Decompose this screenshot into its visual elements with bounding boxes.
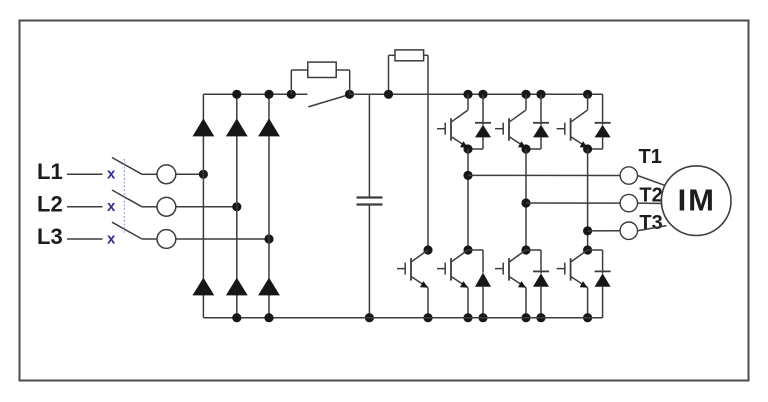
node bus/column2: [232, 90, 241, 99]
wire rectifier column 1: [202, 94, 204, 317]
IGBT Q3 (upper) emitter with arrow: [571, 137, 587, 148]
diode D4 (lower rectifier): [193, 278, 215, 296]
node IGBT Q6 collector: [583, 245, 592, 254]
wire T1 to motor: [638, 176, 666, 186]
wire blade to contactor L2: [142, 206, 157, 208]
wire phase output T3: [588, 230, 621, 232]
svg-text:T3: T3: [639, 212, 662, 234]
IGBT Q1 (upper) collector: [452, 110, 468, 122]
svg-text:T1: T1: [639, 146, 662, 168]
diode D6 (lower rectifier): [258, 278, 280, 296]
node DC+/IGBT Q2 collector: [521, 90, 530, 99]
svg-text:x: x: [107, 230, 116, 247]
IGBT Q2 (upper) collector: [510, 110, 526, 122]
diode D12 (lower freewheel) lead: [602, 250, 604, 273]
IGBT Q4 (lower) emitter with arrow: [452, 277, 468, 288]
node precharge left: [287, 90, 296, 99]
node DC+/diode D7: [478, 90, 487, 99]
wire capacitor bottom lead: [368, 205, 370, 318]
wire blade to contactor L3: [142, 238, 157, 240]
node precharge right: [345, 90, 354, 99]
diode D7 (upper freewheel) cathode bar: [475, 122, 491, 124]
IGBT Q1 (upper) gate lead: [437, 128, 445, 130]
node Q7 emitter/DC-: [423, 313, 432, 322]
IGBT Q7 (brake chopper) collector: [412, 250, 428, 262]
IGBT Q5 (lower) body bar: [508, 258, 510, 281]
wire capacitor top lead: [368, 94, 370, 197]
switch precharge bypass contact: [308, 95, 349, 107]
diode D9 (upper freewheel) cathode bar: [595, 122, 611, 124]
IGBT Q7 (brake chopper) gate bar: [404, 263, 406, 275]
IGBT Q5 (lower) collector: [510, 250, 526, 262]
wire rectifier column 3: [268, 94, 270, 317]
IGBT Q6 (lower) gate bar: [564, 263, 566, 275]
node Q5 emitter/DC-: [521, 313, 530, 322]
wire L3 to rectifier: [176, 238, 269, 240]
wire blade to contactor L1: [142, 173, 157, 175]
wire DC+ bus (left of precharge switch): [203, 93, 307, 95]
IGBT Q6 (lower) gate lead: [557, 268, 565, 270]
wire brake resistor left lead: [388, 55, 390, 94]
diode D11 (lower freewheel) lead: [540, 250, 542, 273]
wire L1 to rectifier: [176, 173, 204, 175]
IGBT Q6 (lower) emitter with arrow: [571, 277, 587, 288]
terminal circle T2: [620, 194, 637, 211]
svg-text:x: x: [107, 198, 116, 215]
IGBT Q2 (upper) gate lead: [495, 128, 503, 130]
wire Q1 emitter to D7 anode: [468, 148, 483, 150]
svg-text:IM: IM: [678, 182, 716, 217]
wire precharge loop left: [290, 70, 292, 94]
node DC-/column2: [232, 313, 241, 322]
node bus/brake-resistor: [384, 90, 393, 99]
switch gang link (dashed): [123, 159, 125, 233]
wire brake resistor right lead: [424, 54, 428, 56]
IGBT Q6 (lower) body bar: [570, 258, 572, 281]
switch blade S1: [112, 158, 142, 175]
wire rectifier column 2: [236, 94, 238, 317]
wire L2 to rectifier: [176, 206, 237, 208]
IGBT Q7 (brake chopper) emitter with arrow: [412, 277, 428, 288]
diode D5 (lower rectifier): [226, 278, 248, 296]
IGBT Q7 (brake chopper) body bar: [410, 258, 412, 281]
wire L3 lead-in: [67, 238, 103, 240]
IGBT Q3 (upper) gate bar: [564, 123, 566, 135]
wire Q4 collector to D10 cathode: [468, 249, 483, 251]
diode D8 (upper freewheel) lead: [540, 94, 542, 125]
wire T2 to motor: [638, 202, 664, 204]
wire L1 lead-in: [67, 173, 103, 175]
wire phase leg 2 midpoint: [525, 149, 527, 250]
wire Q6 collector to D12 cathode: [588, 249, 603, 251]
wire phase leg 3 midpoint: [587, 149, 589, 250]
node brake IGBT Q7 collector: [423, 245, 432, 254]
diode D7 (upper freewheel) triangle: [475, 125, 491, 138]
resistor R2 (brake): [395, 50, 424, 61]
svg-text:L3: L3: [37, 224, 63, 249]
terminal circle T3: [620, 222, 637, 239]
node DC+/IGBT Q1 collector: [463, 90, 472, 99]
node L2-rectifier junction: [232, 202, 241, 211]
node D11/DC-: [536, 313, 545, 322]
node D10/DC-: [478, 313, 487, 322]
wire DC- bus: [203, 317, 602, 319]
node phase T1 tap: [463, 171, 472, 180]
node Q3 emitter junction: [583, 144, 592, 153]
diode D3 (upper rectifier): [258, 118, 280, 136]
wire precharge loop right: [336, 69, 350, 71]
svg-text:L2: L2: [37, 192, 63, 217]
IGBT Q5 (lower) emitter with arrow: [510, 277, 526, 288]
node Q4 emitter/DC-: [463, 313, 472, 322]
diode D7 (upper freewheel) lead: [482, 94, 484, 125]
node capacitor/DC- bus: [365, 313, 374, 322]
diode D10 (lower freewheel) lead: [482, 250, 484, 273]
diode D9 (upper freewheel) lead: [602, 94, 604, 125]
IGBT Q7 (brake chopper) gate lead: [397, 268, 405, 270]
node DC+/diode D8: [536, 90, 545, 99]
IGBT Q4 (lower) body bar: [450, 258, 452, 281]
IGBT Q5 (lower) gate bar: [502, 263, 504, 275]
IGBT Q3 (upper) gate lead: [557, 128, 565, 130]
node DC-/column3: [264, 313, 273, 322]
switch blade S2: [112, 190, 142, 207]
diode D12 (lower freewheel) triangle: [595, 273, 611, 286]
terminal circle T1: [620, 167, 637, 184]
IGBT Q4 (lower) gate lead: [437, 268, 445, 270]
node IGBT Q5 collector: [521, 245, 530, 254]
IGBT Q3 (upper) body bar: [570, 118, 572, 141]
wire L2 lead-in: [67, 206, 103, 208]
node Q1 emitter junction: [463, 144, 472, 153]
IGBT Q4 (lower) gate bar: [444, 263, 446, 275]
switch blade S3: [112, 222, 142, 239]
node phase T2 tap: [521, 198, 530, 207]
diode D9 (upper freewheel) triangle: [595, 125, 611, 138]
IGBT Q6 (lower) collector: [571, 250, 587, 262]
IGBT Q2 (upper) body bar: [508, 118, 510, 141]
contactor circle K1: [157, 165, 176, 184]
wire Q5 collector to D11 cathode: [526, 249, 541, 251]
diode D8 (upper freewheel) triangle: [533, 125, 549, 138]
diode D8 (upper freewheel) cathode bar: [533, 122, 549, 124]
IGBT Q2 (upper) gate bar: [502, 123, 504, 135]
diode D10 (lower freewheel) triangle: [475, 273, 491, 287]
IGBT Q1 (upper) gate bar: [444, 123, 446, 135]
diode D1 (upper rectifier): [193, 118, 215, 136]
diode D11 (lower freewheel) cathode bar: [533, 270, 549, 272]
capacitor C1 (DC link): [357, 196, 383, 198]
wire Q2 emitter to D8 anode: [526, 148, 541, 150]
diode D12 (lower freewheel) cathode bar: [595, 270, 611, 272]
resistor R1 (precharge): [308, 62, 336, 77]
contactor circle K2: [157, 197, 176, 216]
IGBT Q5 (lower) gate lead: [495, 268, 503, 270]
IGBT Q3 (upper) collector: [571, 110, 587, 122]
wire T3 to motor: [638, 226, 667, 231]
wire DC+ bus (right section): [350, 93, 603, 95]
svg-text:L1: L1: [37, 159, 63, 184]
node Q6 emitter/DC-: [583, 313, 592, 322]
node phase T3 tap: [583, 226, 592, 235]
node DC+/IGBT Q3 collector: [583, 90, 592, 99]
diode D2 (upper rectifier): [226, 118, 248, 136]
contactor circle K3: [157, 230, 176, 249]
svg-text:x: x: [107, 166, 116, 183]
node L3-rectifier junction: [264, 234, 273, 243]
wire phase output T1: [468, 174, 620, 176]
wire phase output T2: [526, 202, 620, 204]
IGBT Q1 (upper) emitter with arrow: [452, 137, 468, 148]
motor M1 circle: [661, 166, 731, 236]
IGBT Q4 (lower) collector: [452, 250, 468, 262]
diode D11 (lower freewheel) triangle: [533, 273, 549, 286]
wire Q3 emitter to D9 anode: [588, 148, 603, 150]
node Q2 emitter junction: [521, 144, 530, 153]
wire phase leg 1 midpoint: [467, 149, 469, 250]
IGBT Q2 (upper) emitter with arrow: [510, 137, 526, 148]
node L1-rectifier junction: [199, 170, 208, 179]
node IGBT Q4 collector: [463, 245, 472, 254]
node bus/column3: [264, 90, 273, 99]
IGBT Q1 (upper) body bar: [450, 118, 452, 141]
